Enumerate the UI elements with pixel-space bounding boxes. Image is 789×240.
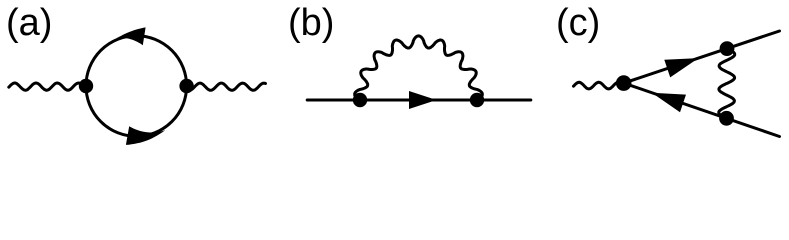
photon propagator, external right (a)	[187, 83, 266, 90]
fermion line, outgoing upper (c)	[624, 31, 780, 83]
arrowhead on lower fermion line (c)	[652, 93, 686, 113]
fermion line, incoming lower (c)	[624, 83, 780, 136]
arrowhead on fermion line (b)	[409, 91, 437, 109]
vertex dot, lower (c)	[719, 111, 734, 126]
arrowhead on loop, top (a)	[117, 27, 146, 45]
fermion loop (a)	[86, 36, 187, 137]
svg-text:(a): (a)	[6, 2, 52, 44]
vertex dot, left (a)	[79, 79, 93, 93]
arrowhead on upper fermion line (c)	[664, 58, 698, 77]
photon arc (b)	[355, 36, 483, 100]
fermion line (b)	[307, 99, 531, 102]
svg-text:(c): (c)	[556, 2, 600, 44]
svg-text:(b): (b)	[288, 2, 334, 44]
vertex dot, upper (c)	[720, 41, 735, 56]
vertex dot, right (b)	[470, 93, 484, 107]
main vertex dot (c)	[616, 75, 632, 91]
arrowhead on loop, bottom (a)	[126, 126, 166, 145]
photon propagator, external left (a)	[9, 83, 87, 90]
vertex dot, left (b)	[353, 93, 367, 107]
vertex dot, right (a)	[179, 79, 193, 93]
internal photon line (c)	[719, 49, 735, 119]
photon propagator, external (c)	[574, 82, 624, 89]
